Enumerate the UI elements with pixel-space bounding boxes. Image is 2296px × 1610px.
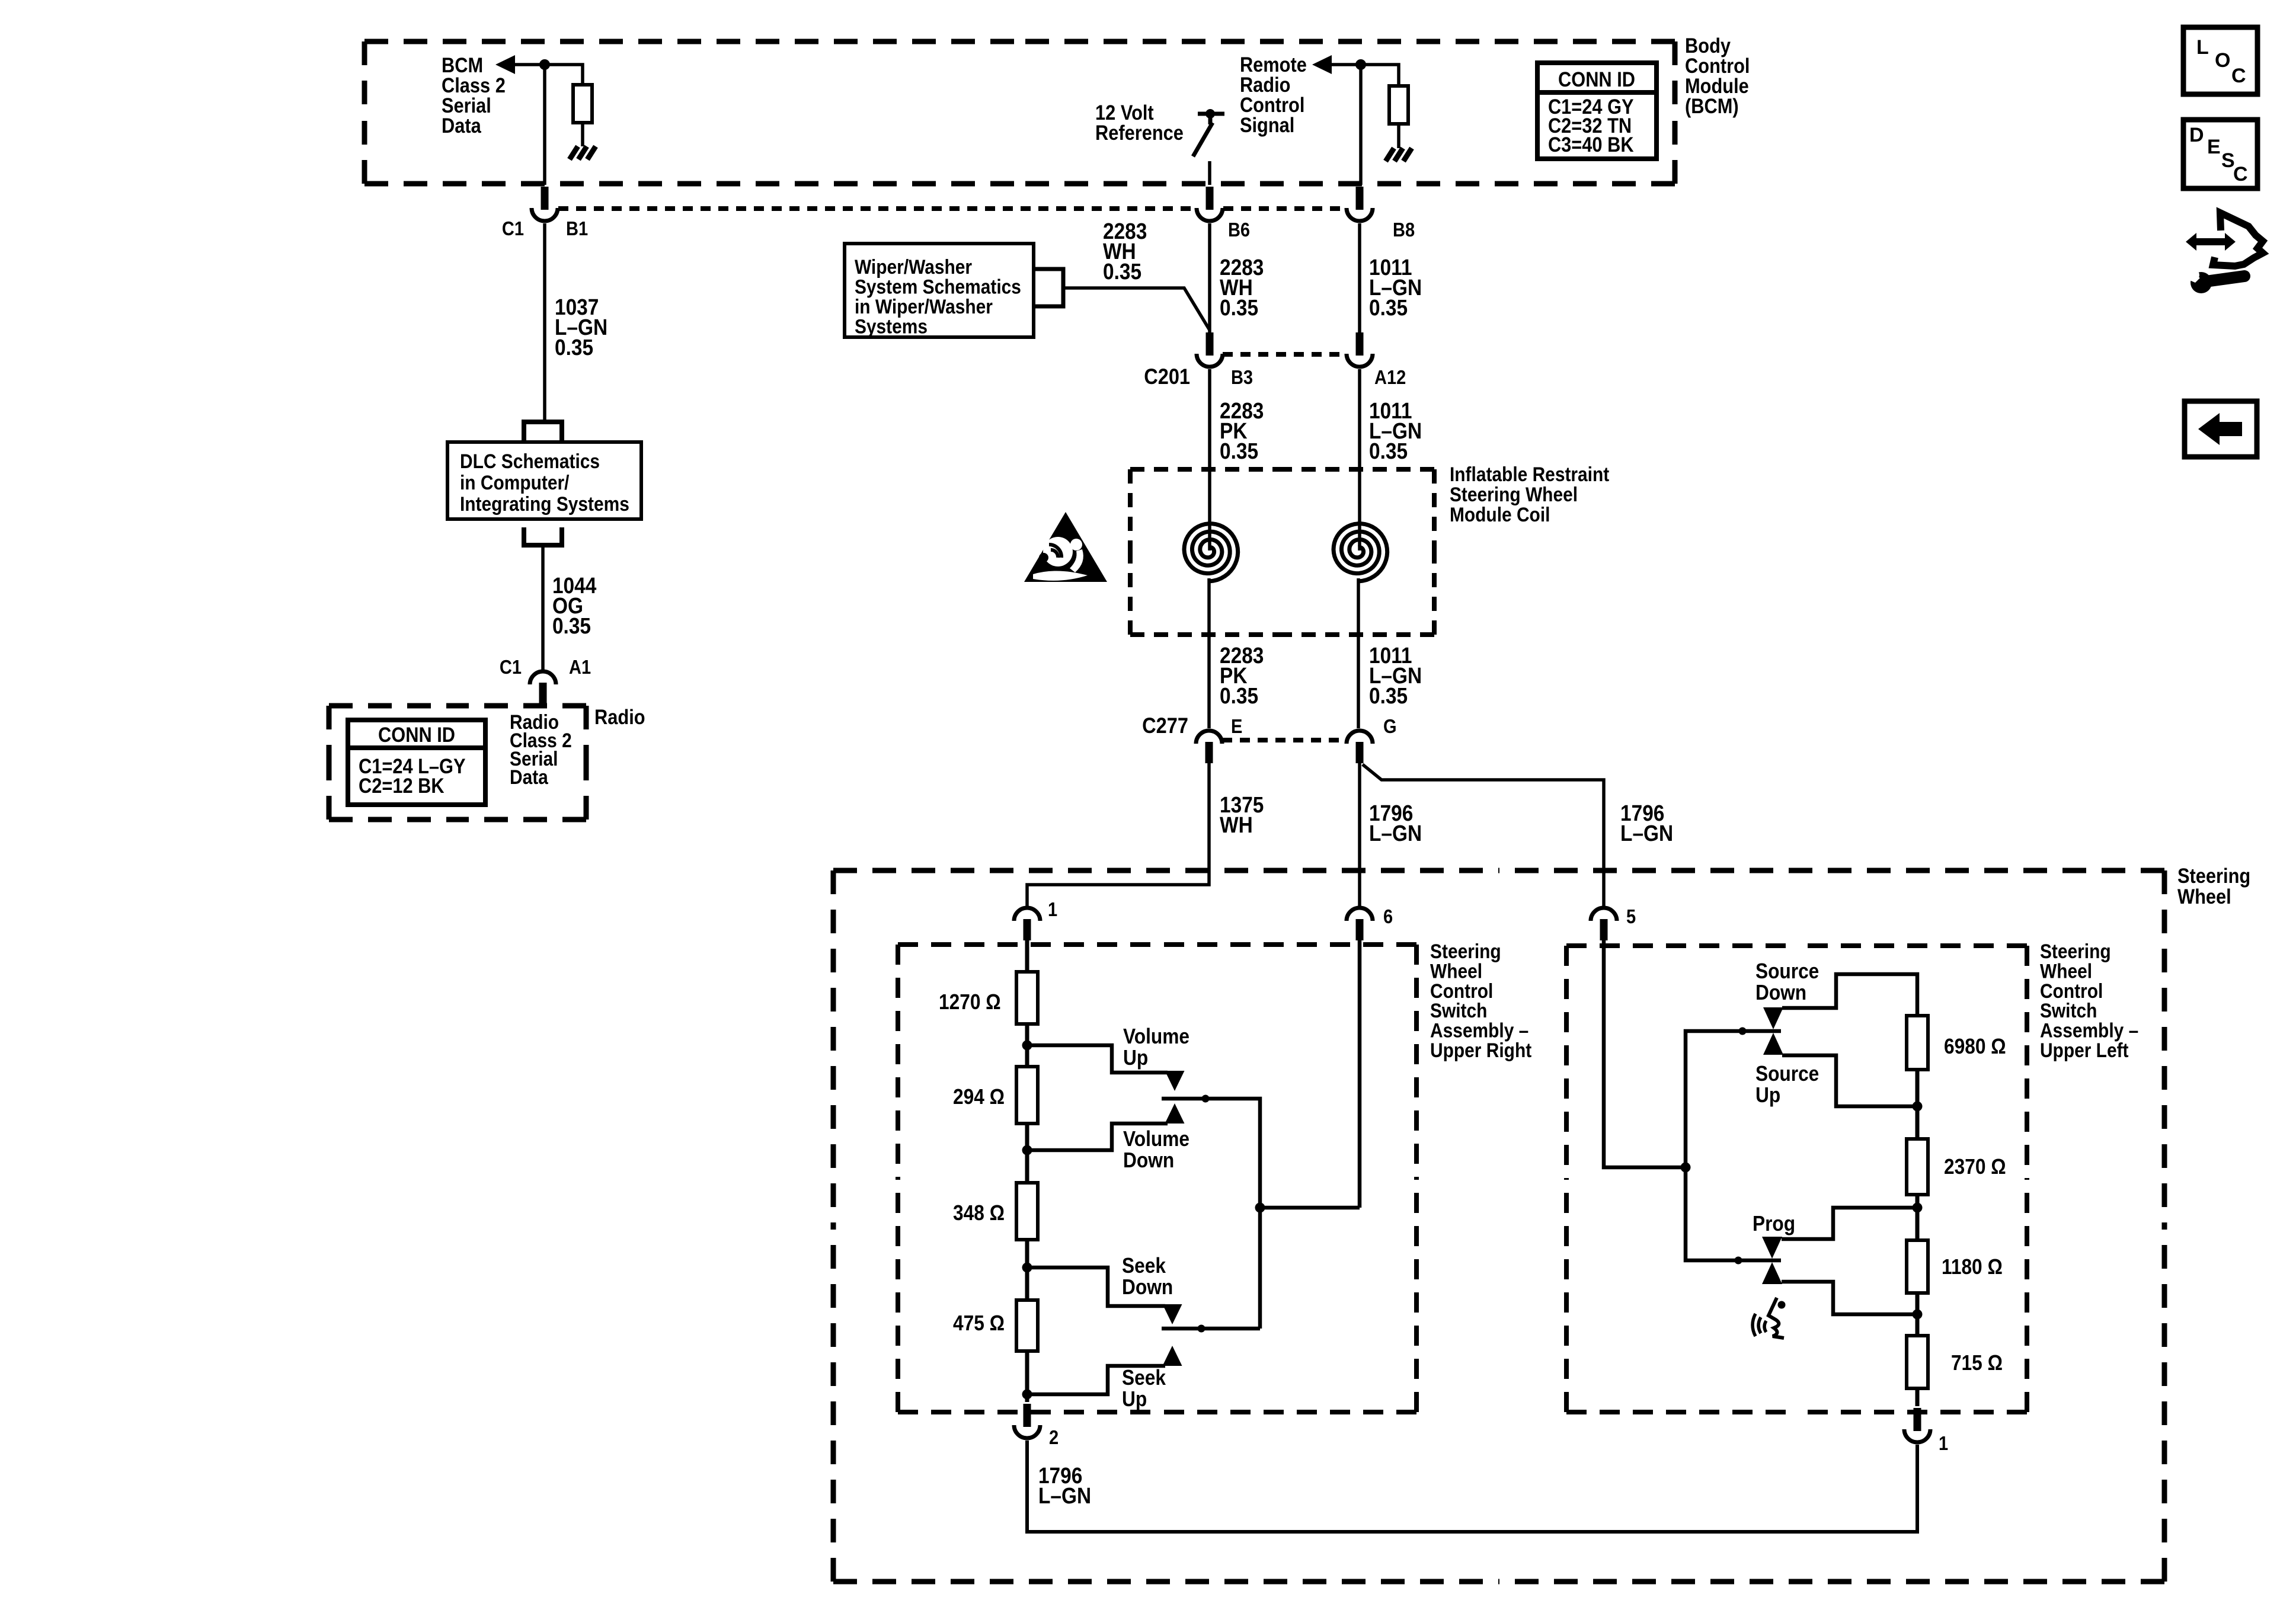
wire 1180 to 715 — [1916, 1293, 1920, 1336]
contact triangle Volume Down — [1165, 1103, 1185, 1124]
svg-text:O: O — [2215, 49, 2230, 72]
wire 1375 WH from E to connector 1 — [1027, 762, 1209, 907]
wire arm common to wire 6 — [1260, 1206, 1360, 1210]
off-page bracket below DLC box — [524, 527, 562, 545]
connector C201 A12 — [1347, 332, 1373, 367]
dotted harness line row1 (C1-B1 to B8) — [558, 206, 1347, 211]
wire prog elbow to chain node — [1782, 1208, 1917, 1239]
svg-text:E: E — [1231, 715, 1242, 737]
junction dot seek-down tap — [1022, 1263, 1032, 1273]
resistor 294 ohm — [1016, 1067, 1038, 1124]
connector C277 G — [1347, 731, 1373, 763]
junction dot on prog arm — [1735, 1257, 1742, 1265]
wire volume switch arm — [1162, 1099, 1260, 1329]
svg-text:Prog: Prog — [1753, 1212, 1795, 1235]
svg-text:715 Ω: 715 Ω — [1951, 1351, 2003, 1375]
junction dot below 1180 — [1913, 1310, 1923, 1320]
svg-text:C277: C277 — [1142, 713, 1188, 738]
wire 2283 PK from C201 to coil — [1208, 369, 1211, 550]
wire voice elbow to chain node — [1782, 1282, 1917, 1314]
wire 1270 to 294 — [1025, 1024, 1029, 1067]
contact triangle Source Down — [1763, 1007, 1783, 1029]
svg-text:Radio: Radio — [594, 705, 645, 728]
svg-text:E: E — [2207, 136, 2221, 158]
junction dot switch common (right box) — [1681, 1163, 1691, 1173]
wire BCM serial data vertical to pin B1 — [543, 65, 546, 185]
dotted harness line C201 — [1223, 352, 1347, 357]
svg-text:6980 Ω: 6980 Ω — [1944, 1035, 2006, 1058]
svg-text:A12: A12 — [1374, 366, 1406, 388]
resistor 715 ohm — [1907, 1336, 1928, 1388]
wire 348 to 475 — [1025, 1240, 1029, 1300]
svg-text:B3: B3 — [1231, 366, 1253, 388]
wire seek-up contact elbow — [1027, 1366, 1165, 1394]
connector C1/A1 at Radio — [530, 671, 556, 704]
wire connector 5 into switch common — [1604, 939, 1686, 1167]
svg-text:G: G — [1383, 715, 1397, 737]
svg-text:B1: B1 — [566, 217, 588, 239]
Body Control Module (BCM) dashed box — [364, 41, 1675, 184]
voice recognition icon — [1753, 1298, 1786, 1338]
CONN ID table box (BCM) — [1537, 63, 1657, 159]
wire 1796 L-GN branch from G to connector 5 — [1363, 764, 1604, 907]
svg-text:1270 Ω: 1270 Ω — [939, 990, 1001, 1014]
svg-text:CONN ID: CONN ID — [378, 723, 455, 746]
connector C201 B3 — [1197, 332, 1223, 367]
wire 715 to connector 1 — [1916, 1388, 1920, 1406]
svg-text:5: 5 — [1626, 905, 1636, 927]
wire 294 to 348 — [1025, 1124, 1029, 1183]
connector 5 (steering wheel) — [1591, 908, 1617, 940]
junction dot below 2370 — [1913, 1203, 1923, 1213]
connector B8 at BCM — [1347, 187, 1373, 221]
wire 1011 L-GN from A12 to coil — [1358, 369, 1361, 550]
connector 2 (steering wheel bottom) — [1014, 1404, 1040, 1438]
wire 6980 to 2370 — [1916, 1070, 1920, 1139]
contact triangle Voice — [1762, 1262, 1782, 1284]
connector 1 (steering wheel, left) — [1014, 908, 1040, 940]
wire 2283 WH from B6 to C201 — [1208, 223, 1211, 333]
junction dot at BCM serial data — [539, 59, 550, 70]
resistor 348 ohm — [1016, 1183, 1038, 1240]
Radio dashed box — [329, 706, 586, 820]
svg-text:B8: B8 — [1393, 219, 1415, 241]
svg-text:475 Ω: 475 Ω — [953, 1311, 1005, 1335]
wire source-up elbow to chain node — [1782, 1055, 1917, 1106]
svg-text:C: C — [2233, 163, 2248, 185]
svg-text:B6: B6 — [1228, 219, 1250, 241]
wire below left coil to C277 E — [1207, 578, 1211, 728]
connector 1 (steering wheel bottom right) — [1904, 1408, 1930, 1442]
resistor 2370 ohm — [1907, 1139, 1928, 1195]
off-page bracket right of Wiper/Washer box — [1034, 269, 1063, 306]
svg-text:CONN ID: CONN ID — [1558, 68, 1635, 91]
wire 475 to connector 2 — [1025, 1351, 1029, 1402]
switch 12 volt reference (driver transistor symbol) — [1193, 109, 1224, 156]
wire connector 6 down to common — [1358, 939, 1362, 1208]
wire remote radio control horizontal — [1331, 65, 1399, 86]
Wiper/Washer System Schematics reference box — [845, 244, 1034, 337]
wire 2370 to 1180 — [1916, 1195, 1920, 1240]
wire source-down elbow to chain top — [1782, 974, 1917, 1016]
wire 1044 OG from DLC bracket to radio connector — [541, 545, 545, 672]
svg-text:294 Ω: 294 Ω — [953, 1085, 1005, 1109]
svg-text:348 Ω: 348 Ω — [953, 1201, 1005, 1225]
Inflatable Restraint Steering Wheel Module Coil dashed box — [1130, 469, 1434, 635]
contact triangle Source Up — [1763, 1033, 1783, 1055]
wire seek-down contact elbow — [1027, 1267, 1165, 1306]
connector B6 at BCM — [1197, 187, 1223, 221]
wire resistor to ground (right) — [1397, 124, 1400, 148]
DLC Schematics reference box — [447, 442, 641, 519]
connector C1/B1 at BCM — [532, 187, 558, 221]
svg-text:C1: C1 — [502, 217, 524, 239]
contact triangle Prog — [1762, 1237, 1782, 1259]
connector C277 E — [1196, 731, 1222, 763]
svg-text:C1=24 GYC2=32 TNC3=40 BK: C1=24 GYC2=32 TNC3=40 BK — [1548, 95, 1634, 156]
vehicle data icon (outline with double arrow) — [2186, 213, 2263, 266]
wire 1796 L-GN bottom run — [1027, 1441, 1917, 1532]
contact triangle Seek Down — [1163, 1304, 1182, 1324]
svg-text:SeekDown: SeekDown — [1122, 1254, 1173, 1299]
back arrow icon box — [2185, 401, 2257, 457]
wire volume-up contact elbow — [1027, 1045, 1168, 1073]
resistor BCM internal pull-up (left) — [573, 85, 592, 123]
resistor 1180 ohm — [1907, 1240, 1928, 1293]
svg-text:A1: A1 — [569, 656, 591, 678]
CONN ID table box (Radio) — [348, 720, 485, 805]
svg-text:6: 6 — [1383, 905, 1393, 927]
svg-text:C: C — [2231, 65, 2246, 87]
svg-text:1180 Ω: 1180 Ω — [1942, 1255, 2003, 1279]
wire 1037 L-GN from B1 to DLC bracket — [543, 223, 546, 420]
SRS caution triangle icon — [1024, 512, 1107, 582]
wire below right coil to C277 G — [1357, 578, 1360, 728]
junction dot at remote radio signal — [1355, 59, 1366, 70]
junction dot below 6980 — [1913, 1102, 1923, 1112]
svg-text:L: L — [2196, 36, 2209, 59]
junction dot arm common — [1255, 1203, 1265, 1213]
junction dot on source arm — [1739, 1028, 1747, 1035]
wire common down to prog arm — [1686, 1167, 1781, 1260]
junction dot volume-down tap — [1022, 1145, 1032, 1156]
resistor 475 ohm — [1016, 1300, 1038, 1351]
DESC icon box — [2183, 120, 2257, 188]
dotted harness line C277 — [1222, 738, 1346, 742]
svg-text:2370 Ω: 2370 Ω — [1944, 1155, 2006, 1179]
wire connector1 to resistor 1270 — [1025, 939, 1029, 972]
wire resistor to ground (left) — [581, 123, 584, 146]
resistor 1270 ohm — [1016, 972, 1038, 1024]
coil right (clockspring) symbol — [1334, 524, 1387, 581]
wire BCM serial data horizontal — [514, 65, 583, 85]
contact triangle Volume Up — [1165, 1071, 1185, 1091]
junction dot seek-up tap — [1022, 1390, 1032, 1400]
junction dot on volume arm — [1202, 1095, 1210, 1103]
Steering Wheel dashed box — [833, 870, 2164, 1582]
wire 12V reference down to pin B6 — [1208, 161, 1211, 185]
source arm decorations — [0, 0, 1, 1]
wire 1796 L-GN from G to connector 6 — [1358, 762, 1361, 907]
resistor 6980 ohm — [1907, 1016, 1928, 1070]
wire 2283 WH from wiper bracket to splice — [1063, 288, 1210, 330]
off-page bracket above DLC box — [524, 422, 562, 441]
coil left (clockspring) symbol — [1184, 524, 1238, 581]
svg-text:C201: C201 — [1144, 364, 1190, 389]
Steering Wheel Control Switch Assembly - Upper Right dashed box — [898, 945, 1416, 1412]
connector 6 (steering wheel) — [1347, 908, 1373, 940]
svg-text:1: 1 — [1939, 1432, 1948, 1454]
arrow BCM Class 2 Serial Data — [495, 55, 515, 74]
arrow Remote Radio Control Signal — [1312, 55, 1332, 74]
svg-text:1: 1 — [1048, 898, 1057, 920]
wire common up to source arm — [1686, 1031, 1781, 1167]
ground chassis symbol (left, inside BCM) — [570, 146, 596, 159]
wire 1011 L-GN from B8 to A12 — [1358, 223, 1361, 333]
wire remote radio vertical to pin B8 — [1359, 65, 1363, 185]
contact triangle Seek Up — [1163, 1346, 1182, 1366]
wrench icon — [2187, 270, 2244, 293]
wire seek switch arm — [1162, 1327, 1260, 1331]
ground chassis symbol (right, inside BCM) — [1386, 148, 1412, 161]
wire volume-down contact elbow — [1027, 1124, 1168, 1150]
junction dot volume-up tap — [1022, 1041, 1032, 1051]
svg-text:D: D — [2189, 124, 2204, 146]
resistor BCM internal pull-up (right) — [1389, 86, 1408, 124]
svg-text:2: 2 — [1049, 1426, 1059, 1448]
Steering Wheel Control Switch Assembly - Upper Left dashed box — [1566, 946, 2027, 1412]
svg-text:C1: C1 — [500, 656, 522, 678]
junction dot on seek arm — [1198, 1325, 1205, 1333]
LOC icon box — [2183, 27, 2257, 94]
